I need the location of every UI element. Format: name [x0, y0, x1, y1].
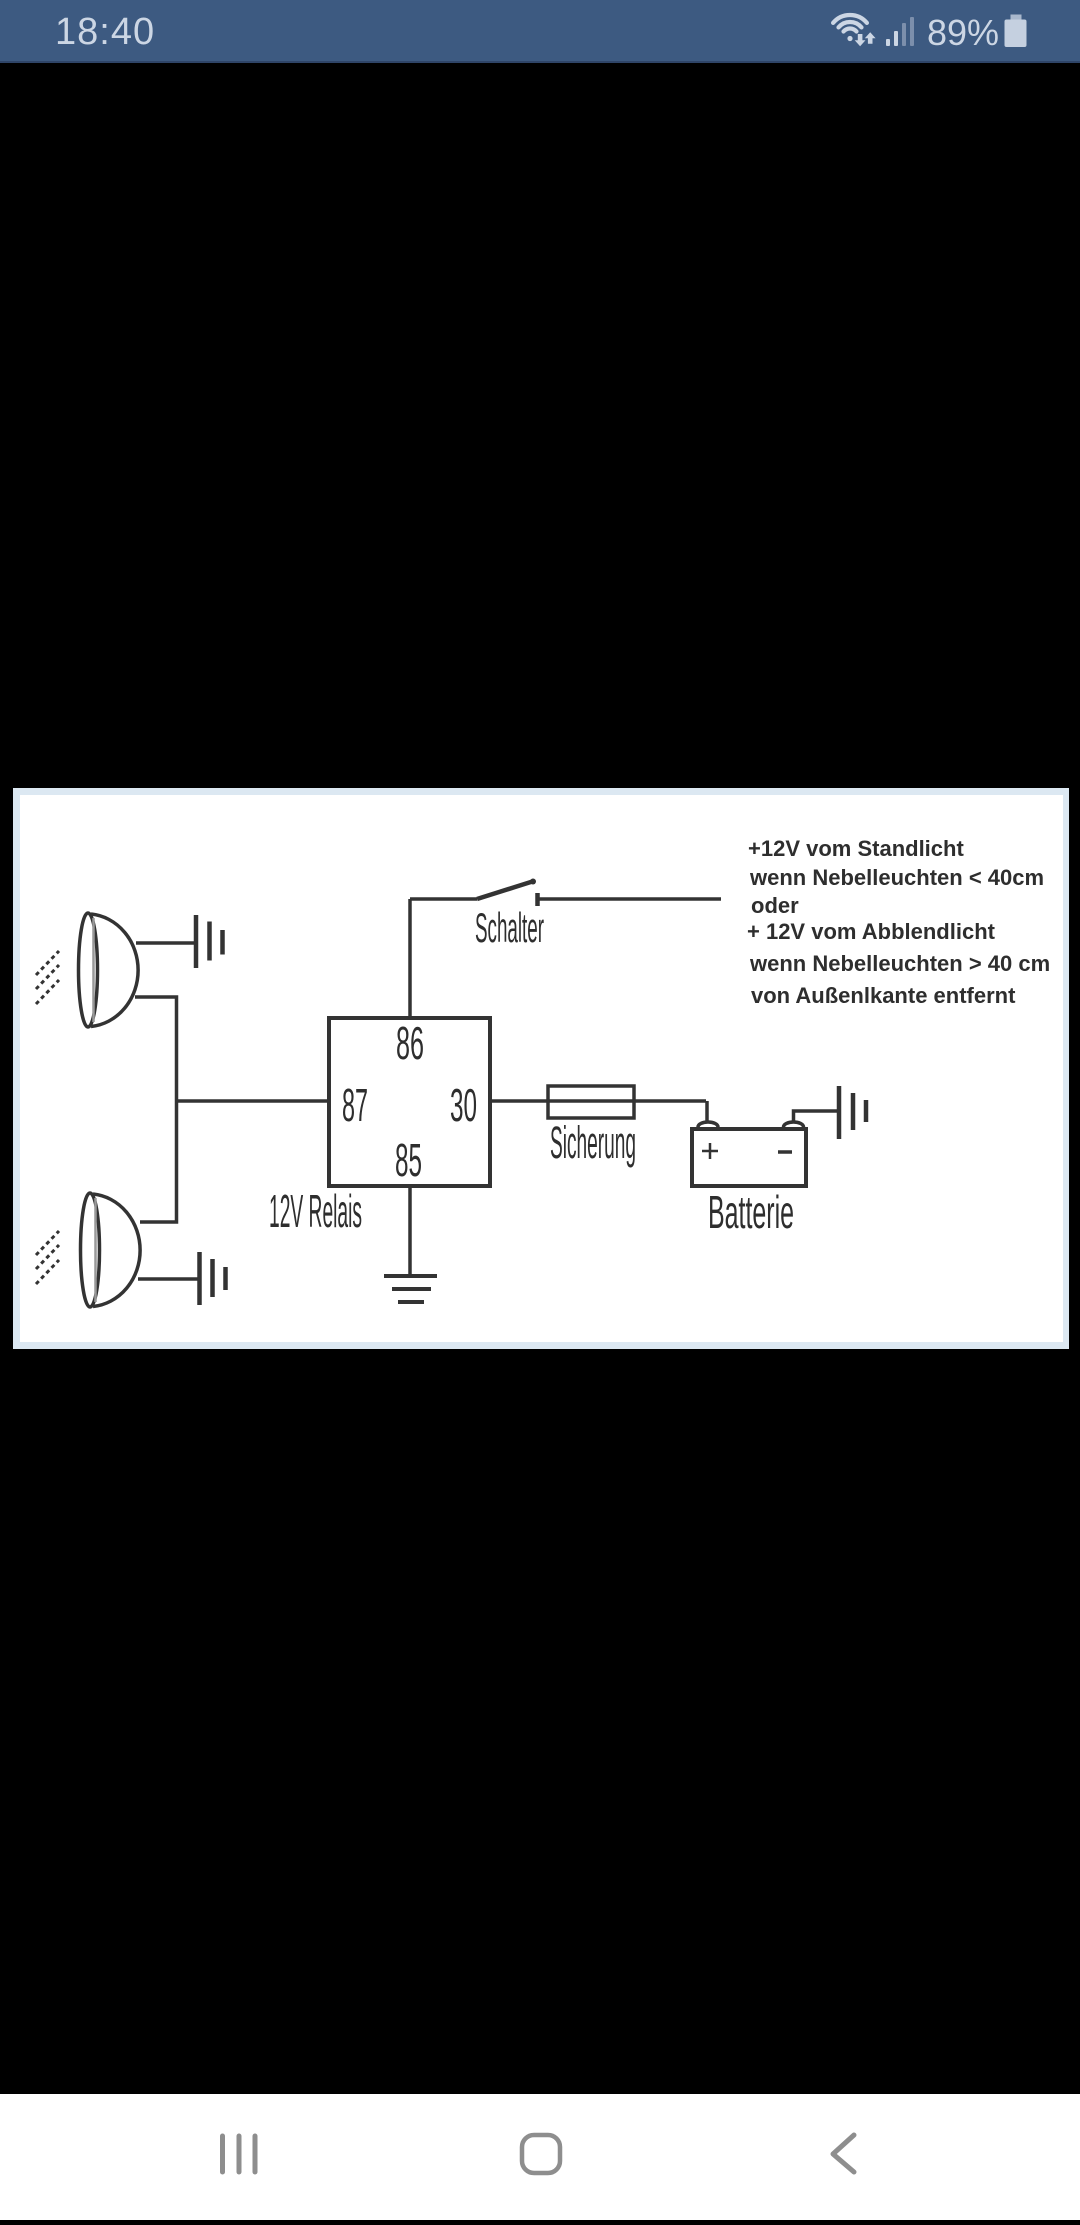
home button — [522, 2135, 560, 2173]
ground top lamp — [196, 915, 223, 968]
wire down to battery plus terminal — [705, 1101, 709, 1124]
svg-text:Sicherung: Sicherung — [550, 1117, 636, 1168]
svg-text:86: 86 — [396, 1017, 424, 1069]
wire battery minus to ground — [794, 1111, 840, 1122]
svg-text:Schalter: Schalter — [475, 904, 544, 951]
svg-text:89%: 89% — [927, 12, 999, 53]
relay box — [329, 1018, 490, 1186]
status bar — [0, 0, 1080, 63]
battery plus sign — [702, 1143, 718, 1159]
wifi arrows — [855, 32, 876, 46]
svg-text:85: 85 — [395, 1134, 422, 1186]
switch S1 blade — [477, 881, 534, 899]
navigation bar — [0, 2094, 1080, 2220]
back button — [833, 2135, 854, 2172]
wifi icon — [833, 15, 867, 32]
signal bars — [886, 31, 898, 46]
lamp bottom reflector — [81, 1193, 100, 1307]
svg-text:von Außenlkante entfernt: von Außenlkante entfernt — [751, 983, 1016, 1008]
wire relay 85 to earth — [408, 1186, 412, 1276]
wire relay 30 through fuse to battery — [490, 1099, 706, 1103]
svg-text:+ 12V vom Abblendlicht: + 12V vom Abblendlicht — [747, 919, 996, 944]
recents button — [223, 2136, 256, 2172]
lamp top reflector — [79, 913, 98, 1027]
svg-text:+12V vom Standlicht: +12V vom Standlicht — [748, 836, 964, 861]
svg-text:oder: oder — [751, 893, 799, 918]
battery icon — [1011, 15, 1022, 21]
hatch top lamp — [36, 951, 59, 1004]
clock 18:40 — [55, 11, 155, 54]
ground battery — [839, 1086, 866, 1139]
hatch bottom lamp — [36, 1231, 59, 1284]
wire lamp1 to ground — [136, 941, 196, 945]
earth ground — [384, 1276, 437, 1302]
battery minus sign — [778, 1150, 792, 1154]
wire lamp2 to ground — [138, 1277, 200, 1281]
svg-text:Batterie: Batterie — [708, 1186, 794, 1238]
svg-text:12V Relais: 12V Relais — [269, 1185, 362, 1237]
battery minus terminal bump — [784, 1122, 804, 1132]
wire relay 86 up to switch — [408, 899, 412, 1018]
panel background — [13, 788, 1069, 1349]
svg-text:wenn Nebelleuchten < 40cm: wenn Nebelleuchten < 40cm — [749, 865, 1044, 890]
battery plus terminal bump — [698, 1122, 718, 1132]
battery box — [692, 1129, 806, 1186]
wire switch input — [410, 897, 477, 901]
svg-text:87: 87 — [342, 1079, 368, 1131]
wire lamp2 upper stub — [140, 1101, 177, 1222]
white schematic panel — [13, 788, 1069, 1349]
wire switch to +12V note — [538, 897, 722, 901]
wire lamp1 lower stub — [135, 997, 177, 1101]
svg-text:wenn Nebelleuchten > 40 cm: wenn Nebelleuchten > 40 cm — [749, 951, 1050, 976]
ground bottom lamp — [200, 1252, 226, 1305]
info text — [747, 836, 1050, 1008]
labels — [269, 904, 794, 1238]
wire bus to relay 87 — [177, 1099, 330, 1103]
switch S1 contact — [535, 893, 540, 906]
svg-text:30: 30 — [450, 1079, 477, 1131]
fuse — [548, 1086, 634, 1118]
